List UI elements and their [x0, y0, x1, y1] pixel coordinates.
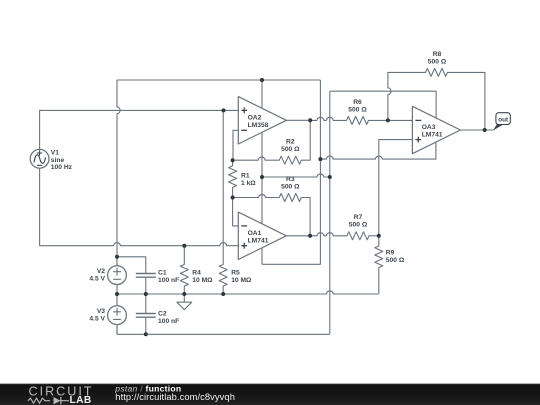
svg-text:10 MΩ: 10 MΩ — [231, 277, 252, 284]
svg-text:LM741: LM741 — [422, 132, 443, 139]
svg-text:OA2: OA2 — [248, 115, 262, 122]
wire power link y=177 — [262, 174, 330, 177]
svg-text:http://circuitlab.com/c8vyvqh: http://circuitlab.com/c8vyvqh — [115, 392, 235, 402]
svg-text:R1: R1 — [241, 173, 250, 180]
wire C1 top link — [117, 257, 146, 274]
wire OA1 top power stub — [261, 177, 263, 224]
wire positive rail drop x=320.4 to OA1 lower stub — [262, 80, 320, 264]
ground — [177, 294, 192, 310]
svg-text:10 MΩ: 10 MΩ — [192, 277, 213, 284]
wire OA3 output — [460, 129, 493, 131]
svg-text:500 Ω: 500 Ω — [386, 257, 405, 264]
svg-text:100 nF: 100 nF — [158, 318, 179, 325]
svg-text:500 Ω: 500 Ω — [281, 184, 300, 191]
resistor R5 10Mohm — [219, 110, 227, 294]
wire OA2 output — [286, 119, 310, 121]
svg-text:1 kΩ: 1 kΩ — [241, 180, 256, 187]
wire rail tap y=159.1 to OA3 bottom power stub — [320, 143, 436, 160]
svg-text:R2: R2 — [286, 139, 295, 146]
svg-text:R5: R5 — [231, 270, 240, 277]
wire V2 top stub — [116, 257, 118, 266]
source V2 4.5V — [108, 266, 127, 285]
resistor R3 500ohm — [233, 194, 311, 236]
wire bottom supply rail y=334.3 — [117, 325, 330, 335]
svg-text:500 Ω: 500 Ω — [348, 106, 367, 113]
svg-text:R8: R8 — [433, 51, 442, 58]
op-amp U OA2 LM358 — [238, 97, 286, 144]
wire y=91.2 to OA3 top power stub — [330, 91, 436, 118]
svg-text:sine: sine — [51, 157, 65, 164]
node out flag — [493, 113, 510, 131]
svg-text:R6: R6 — [353, 99, 362, 106]
svg-text:C2: C2 — [158, 311, 167, 318]
svg-text:OA3: OA3 — [422, 124, 436, 131]
wire OA2 top power stub — [261, 80, 263, 109]
wire OA1 bottom power stub — [261, 248, 263, 264]
svg-text:LM358: LM358 — [248, 122, 269, 129]
op-amp U OA3 LM741 — [412, 106, 460, 153]
svg-text:R4: R4 — [192, 270, 201, 277]
wire OA2 inverting input — [233, 130, 238, 160]
wire C2 top lead — [145, 294, 147, 314]
resistor R2 500ohm — [233, 120, 311, 164]
wire top supply rail y=80 — [117, 79, 320, 81]
wire C2 bottom lead — [145, 317, 147, 334]
op-amp U OA1 LM741 — [238, 212, 286, 259]
svg-text:500 Ω: 500 Ω — [349, 222, 368, 229]
svg-text:500 Ω: 500 Ω — [281, 146, 300, 153]
source V3 4.5V — [108, 306, 127, 325]
wire V3 bottom stub — [116, 325, 118, 335]
wire OA1 inverting input — [233, 198, 239, 226]
svg-text:out: out — [498, 116, 509, 123]
wire V1-top to OA2 noninverting input — [40, 110, 239, 149]
svg-text:C1: C1 — [158, 270, 167, 277]
resistor R8 500ohm — [388, 68, 485, 130]
resistor R9 500ohm — [375, 236, 383, 294]
source V1 sine — [30, 149, 49, 168]
svg-text:R3: R3 — [286, 176, 295, 183]
wire OA3 noninverting input riser x=378.8 — [379, 140, 413, 236]
resistor R6 500ohm — [310, 116, 412, 124]
svg-text:V3: V3 — [97, 308, 105, 315]
wire OA2 bottom power stub — [261, 132, 263, 177]
wire C1 bottom lead — [145, 277, 147, 294]
junction dots — [260, 78, 264, 82]
capacitor C1 100nF — [136, 274, 156, 278]
resistor R7 500ohm — [310, 232, 379, 240]
svg-text:500 Ω: 500 Ω — [428, 58, 447, 65]
wire V2 bottom stub — [116, 285, 118, 306]
wire supply-left vertical x=117 (top rail to V2+) with hop — [117, 80, 120, 266]
svg-text:4.5 V: 4.5 V — [89, 276, 105, 283]
resistor R4 10Mohm — [180, 246, 188, 294]
resistor R1 1kohm — [229, 160, 237, 197]
svg-text:100 nF: 100 nF — [158, 277, 179, 284]
svg-text:V2: V2 — [97, 268, 105, 275]
wire OA1 output — [286, 235, 310, 237]
svg-text:OA1: OA1 — [248, 230, 262, 237]
svg-text:4.5 V: 4.5 V — [89, 316, 105, 323]
svg-text:LM741: LM741 — [248, 237, 269, 244]
svg-text:LAB: LAB — [70, 395, 92, 405]
capacitor C2 100nF — [136, 314, 156, 318]
footer CircuitLab logo — [28, 384, 92, 405]
wire V1-bottom to OA1 noninverting input — [40, 168, 239, 246]
wire negative rail riser x=329.8 — [329, 91, 331, 334]
wire mid rail y=294 — [117, 291, 379, 294]
svg-text:R7: R7 — [354, 214, 363, 221]
svg-text:R9: R9 — [386, 250, 395, 257]
svg-text:V1: V1 — [51, 150, 59, 157]
svg-text:100 Hz: 100 Hz — [51, 164, 73, 171]
